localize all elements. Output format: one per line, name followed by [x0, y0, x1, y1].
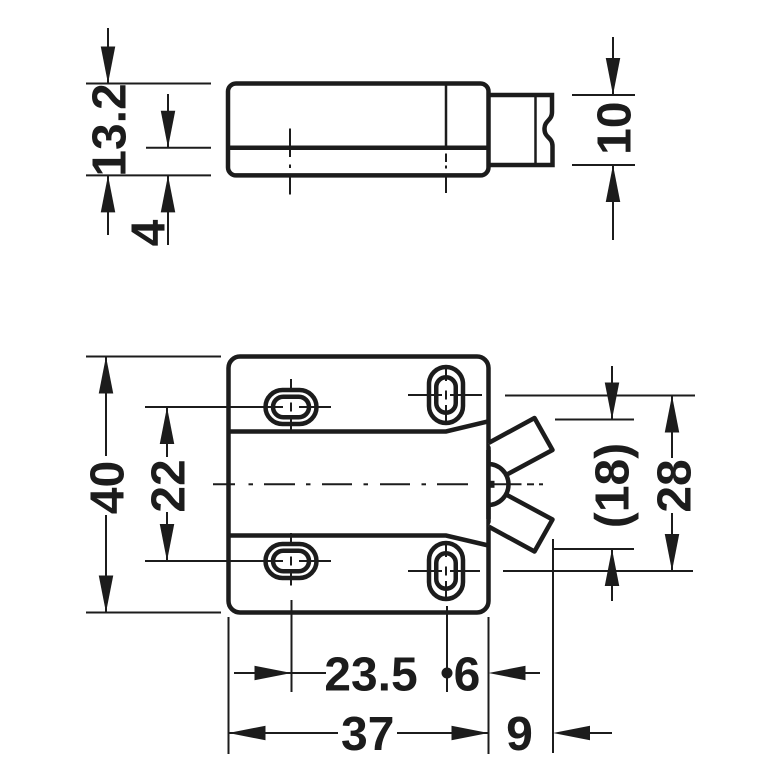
dimension (18): [605, 366, 620, 601]
center line left screw (x=290): [289, 129, 291, 195]
dimension text 40: [90, 463, 124, 514]
horizontal center line: [213, 483, 468, 485]
dimension 10 arrows: [606, 37, 621, 240]
dimension text 6: [455, 657, 478, 691]
band top edge: [229, 421, 489, 431]
center line right screw (x=446): [445, 154, 447, 194]
dimension 23.5: [234, 666, 326, 681]
plunger inner line: [534, 95, 537, 165]
dimension 9 right arrow: [553, 726, 612, 741]
slot lower-right center marks: [408, 543, 480, 599]
slot lower-left inner: [273, 551, 309, 572]
dimension 6 right arrow: [489, 666, 541, 681]
dimension 6 dot: [442, 668, 453, 679]
extension lines 28: [505, 395, 695, 397]
extension line body bottom: [86, 174, 211, 176]
center dot: [488, 481, 495, 488]
dimension text (18): [594, 445, 639, 526]
mounting plate: [229, 357, 489, 613]
dimension text 23.5: [326, 657, 416, 691]
slot upper-left outer: [266, 390, 317, 424]
dimension 13.2 arrows: [101, 28, 116, 235]
plunger outline with break line: [489, 95, 553, 165]
plate right edge over roller: [486, 450, 491, 519]
extension lines 40: [86, 356, 221, 358]
extension line strip: [146, 147, 211, 149]
dimension text 28: [657, 461, 691, 511]
dimension 4 arrows: [161, 94, 176, 245]
dimension text 13.2: [92, 85, 126, 174]
dimension text 22: [151, 461, 185, 511]
dimension text 9: [508, 717, 531, 751]
slot upper-left inner: [273, 397, 309, 418]
latch wing lower: [489, 495, 553, 552]
slot upper-right outer: [429, 367, 463, 423]
housing edge line: [445, 84, 448, 150]
roller: [488, 464, 508, 505]
extension lines plunger (10): [572, 94, 635, 96]
slot upper-left center marks: [145, 379, 331, 432]
dimension 28: [665, 396, 680, 572]
latch body (side view): [228, 84, 489, 176]
center line right of roller: [494, 483, 543, 485]
extension lines (18): [555, 419, 634, 421]
dimension text 10: [597, 104, 631, 152]
flange strip line: [228, 145, 489, 150]
latch wing upper: [489, 418, 553, 475]
slot lower-left outer: [266, 544, 317, 578]
extension line body top: [86, 83, 211, 85]
slot lower-right outer: [429, 543, 463, 599]
dimension text 4: [132, 220, 165, 246]
slot upper-right inner: [436, 377, 456, 413]
bottom extension lines: [228, 617, 230, 754]
slot lower-left center marks: [145, 533, 331, 586]
dimension 22: [160, 407, 175, 561]
dimension 37: [229, 726, 489, 741]
slot upper-right center marks: [408, 367, 482, 423]
dimension text 37: [342, 717, 392, 751]
band bottom edge: [229, 536, 489, 546]
dimension 40: [99, 357, 114, 613]
slot lower-right inner: [436, 553, 456, 589]
